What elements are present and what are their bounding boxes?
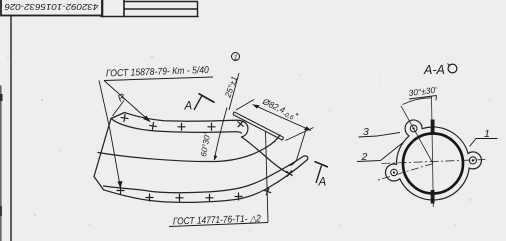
stamp table right [124, 2, 198, 17]
main bore bold circle [403, 134, 463, 194]
face right edge arc [242, 137, 292, 175]
scan edge left [0, 86, 2, 241]
svg-text:А-А: А-А [423, 63, 445, 77]
bottom strip lower line [104, 160, 308, 203]
frame left line [10, 17, 12, 241]
stamp box top-left [1, 0, 102, 16]
circled 1 [232, 53, 240, 61]
section arrow A bottom [315, 162, 329, 184]
+ marks top strip [120, 113, 129, 122]
dim line [253, 105, 312, 131]
top slot [431, 120, 435, 134]
stamp cell divider [103, 0, 125, 17]
svg-text:432092-1015632-026: 432092-1015632-026 [4, 2, 98, 12]
stamp rotated text [4, 2, 98, 12]
left bevel [94, 177, 104, 190]
svg-text:А: А [184, 101, 193, 113]
inner contour [98, 135, 280, 162]
25 deg dimension line [229, 73, 239, 110]
section arrow A top [194, 94, 215, 111]
ext line right [286, 128, 314, 141]
dia dimension [236, 100, 314, 166]
+ marks bottom strip [117, 187, 125, 195]
center lines [377, 97, 486, 208]
top strip right cap [236, 120, 248, 137]
bottom strip upper line [104, 157, 304, 193]
top strip top edge [111, 113, 236, 122]
ext line left [236, 100, 254, 111]
stray tip line [297, 130, 307, 161]
outer contour with tabs [385, 120, 481, 200]
weld plus marks [117, 113, 296, 201]
svg-text:1: 1 [234, 55, 238, 62]
pipe section double line [233, 112, 284, 140]
top strip bottom edge [111, 119, 242, 134]
60 30 arc dimension [214, 108, 227, 161]
band right tip [303, 156, 308, 160]
leaders from label [99, 81, 150, 189]
tab holes [391, 125, 477, 176]
stamp bottom line [101, 16, 198, 18]
svg-text:А: А [318, 177, 327, 189]
bottom slot [431, 190, 435, 204]
left outline [94, 119, 111, 177]
